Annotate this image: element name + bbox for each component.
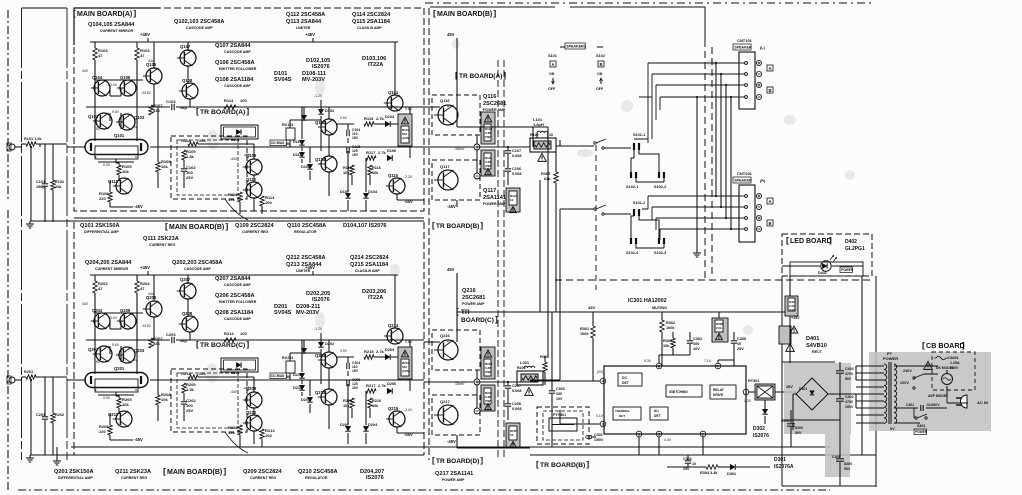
board border dashed [595, 145, 597, 290]
svg-text:IS2076: IS2076 [312, 64, 330, 70]
wire column B [153, 42, 155, 68]
svg-text:D103: D103 [385, 115, 394, 119]
svg-text:CURRENT REG: CURRENT REG [149, 243, 176, 247]
svg-text:100: 100 [265, 433, 272, 438]
svg-text:D301: D301 [727, 472, 736, 476]
wire R112 to Q109 [198, 143, 254, 145]
box DC DET [618, 373, 642, 386]
resistor R108 [156, 162, 160, 172]
svg-text:Q102,103 2SC458A: Q102,103 2SC458A [174, 19, 224, 25]
svg-text:R215: R215 [364, 349, 374, 354]
resistor R106 [108, 192, 112, 202]
wire limit chain [320, 116, 322, 147]
svg-text:Q101: Q101 [114, 133, 125, 138]
warning [786, 344, 795, 352]
terminal plus B [756, 82, 761, 87]
wire [424, 146, 474, 148]
svg-text:0.3V: 0.3V [103, 163, 111, 167]
svg-text:D401: D401 [799, 387, 807, 391]
svg-text:S401: S401 [917, 424, 925, 428]
svg-text:DC BIAS: DC BIAS [271, 374, 284, 378]
wire base row [95, 79, 143, 81]
svg-text:C304: C304 [683, 457, 692, 461]
svg-text:]: ] [246, 339, 249, 349]
wire [301, 107, 303, 134]
resistor R206 [108, 425, 112, 435]
svg-text:-45V: -45V [447, 439, 456, 444]
svg-text:-1.2V: -1.2V [314, 327, 323, 331]
wire transformer primary [894, 365, 912, 367]
wire column A [94, 60, 96, 141]
svg-text:0V: 0V [890, 427, 895, 431]
svg-text:25V: 25V [186, 408, 193, 413]
wire 45V rail [457, 311, 790, 313]
svg-text:47: 47 [140, 53, 145, 58]
transistor Q215 [389, 411, 405, 427]
wire [539, 180, 541, 312]
wire [289, 140, 291, 147]
wire [39, 144, 41, 147]
svg-text:Q113: Q113 [315, 157, 326, 162]
svg-text:100: 100 [693, 342, 699, 346]
svg-text:(1W): (1W) [789, 308, 795, 312]
resistor R114 [224, 105, 236, 109]
svg-text:R217: R217 [366, 383, 376, 388]
wire [790, 265, 820, 267]
svg-text:CNT101: CNT101 [737, 38, 753, 43]
svg-text:-45V: -45V [134, 437, 143, 442]
svg-text:AEP MODEL: AEP MODEL [928, 394, 948, 398]
svg-text:250V: 250V [950, 366, 959, 370]
wire column A [94, 293, 96, 374]
capacitor C202 [181, 401, 187, 403]
svg-text:2SC2681: 2SC2681 [483, 101, 506, 107]
svg-text:Q114: Q114 [388, 90, 399, 95]
relay RY301 [755, 384, 775, 400]
svg-text:Q116: Q116 [440, 98, 450, 103]
svg-text:(5W): (5W) [485, 370, 492, 374]
svg-text:1.25A: 1.25A [950, 361, 960, 365]
svg-text:LIMITER: LIMITER [296, 26, 311, 30]
svg-text:CLASS-B AMP: CLASS-B AMP [357, 26, 382, 30]
svg-text:Q117: Q117 [483, 188, 496, 194]
svg-text:-44V: -44V [230, 157, 238, 161]
capacitor C204 [346, 363, 348, 369]
svg-text:[: [ [432, 456, 435, 465]
svg-text:47: 47 [98, 53, 103, 58]
resistor R116 [368, 165, 372, 175]
svg-text:330: 330 [556, 392, 562, 396]
svg-text:16V: 16V [352, 386, 359, 390]
svg-text:S102-4: S102-4 [626, 251, 639, 255]
svg-text:532: 532 [402, 365, 407, 369]
svg-text:D204: D204 [368, 423, 378, 427]
svg-text:Q211 2SK23A: Q211 2SK23A [115, 469, 151, 475]
capacitor C401 [920, 405, 922, 411]
wire pin3 [560, 423, 600, 425]
svg-text:IS2076: IS2076 [312, 297, 330, 303]
transistor Q112 [321, 119, 337, 135]
resistor R301 [591, 326, 595, 338]
svg-text:C405: C405 [832, 455, 841, 459]
svg-text:Q115: Q115 [388, 173, 399, 178]
svg-text:(5W): (5W) [485, 164, 492, 168]
wire supply rail [90, 41, 398, 43]
resistor R118 [350, 165, 354, 175]
svg-text:S102-1: S102-1 [626, 185, 638, 189]
resistor R213 [260, 429, 264, 439]
svg-text:D210: D210 [293, 373, 302, 377]
switch S401 [915, 417, 917, 419]
wire [328, 135, 330, 156]
wire limit chain [320, 349, 322, 380]
svg-text:-2.2V: -2.2V [404, 408, 413, 412]
svg-text:10k: 10k [343, 404, 350, 408]
svg-text:CB BOARD: CB BOARD [926, 341, 965, 350]
pin 7 [715, 363, 721, 369]
transistor Q217 power [432, 395, 480, 435]
svg-text:Q214: Q214 [388, 323, 399, 328]
svg-text:0.068: 0.068 [512, 172, 522, 176]
svg-text:Q110: Q110 [246, 177, 257, 182]
resistor R110 [238, 192, 242, 202]
transistor Q110 [246, 182, 262, 198]
svg-text:5V: 5V [96, 127, 101, 131]
pin 2 [700, 431, 706, 437]
wire [365, 391, 367, 425]
svg-text:C301: C301 [594, 433, 603, 437]
svg-text:10k: 10k [663, 344, 670, 348]
svg-text:]: ] [829, 235, 832, 245]
page border left [7, 10, 9, 200]
svg-text:TR BOARD(A): TR BOARD(A) [459, 73, 502, 80]
svg-text:C403: C403 [845, 367, 854, 371]
svg-text:100: 100 [240, 331, 247, 336]
svg-text:+45V: +45V [791, 316, 800, 320]
svg-text:45V: 45V [786, 385, 793, 389]
capacitor C102 [181, 168, 187, 170]
wire [409, 340, 411, 357]
svg-text:CURRENT REG: CURRENT REG [250, 476, 277, 480]
wire [328, 368, 330, 389]
svg-text:EMITTER FOLLOWER: EMITTER FOLLOWER [219, 300, 257, 304]
svg-text:RV201: RV201 [282, 356, 294, 360]
board top border MAIN BOARD(B) [430, 7, 705, 40]
wire bottom rail [530, 454, 876, 456]
svg-text:240V: 240V [903, 369, 912, 373]
board border TR column [497, 60, 499, 460]
svg-text:]: ] [480, 221, 483, 230]
resistor R121 emphasized [481, 150, 495, 176]
svg-text:10: 10 [737, 342, 741, 346]
resistor R225 emphasized [506, 423, 520, 447]
capacitor C203 [171, 337, 173, 343]
svg-text:Q205: Q205 [120, 308, 131, 313]
page border top [425, 2, 875, 4]
resistor R212 [188, 375, 198, 379]
svg-text:220: 220 [99, 196, 106, 201]
svg-text:D102: D102 [325, 109, 334, 113]
svg-text:A: A [768, 199, 771, 204]
wire [559, 140, 561, 146]
svg-text:-45V: -45V [447, 204, 456, 209]
svg-text:C303: C303 [556, 387, 565, 391]
svg-text:C201: C201 [36, 413, 45, 417]
svg-text:TR: TR [461, 309, 470, 316]
transistor Q202 [96, 346, 112, 362]
svg-text:R304 3.3k: R304 3.3k [700, 471, 718, 475]
wire cnt horizontals R [648, 195, 739, 197]
svg-text:100k: 100k [666, 326, 675, 330]
svg-text:C103: C103 [166, 99, 176, 104]
transistor Q113 [321, 156, 337, 172]
svg-text:-44V: -44V [243, 153, 251, 157]
switch S102-1 [630, 172, 632, 178]
capacitor C207 [505, 385, 511, 387]
svg-text:R216: R216 [372, 399, 381, 403]
capacitor C301 [586, 435, 592, 437]
svg-text:Q204: Q204 [92, 308, 103, 313]
pin 5 [656, 431, 662, 437]
svg-text:IT22A: IT22A [368, 295, 383, 301]
svg-text:MV-203V: MV-203V [302, 77, 325, 83]
svg-text:C305: C305 [737, 337, 746, 341]
svg-text:OFF: OFF [596, 87, 604, 91]
wire pin4 link [593, 380, 600, 382]
wire supply rail [90, 274, 398, 276]
jack R channel input [9, 377, 15, 383]
wire jack ground A [30, 147, 32, 221]
svg-text:[: [ [432, 221, 435, 230]
svg-text:POWER AMP: POWER AMP [483, 202, 506, 206]
label DC BIAS [270, 140, 286, 146]
capacitor C201 [42, 416, 48, 418]
svg-text:1.3k: 1.3k [186, 387, 195, 392]
svg-text:Q106 2SC458A: Q106 2SC458A [215, 60, 255, 66]
svg-text:C206: C206 [512, 402, 521, 406]
svg-text:POWER: POWER [841, 268, 854, 272]
resistor R123 emphasized [506, 188, 520, 212]
svg-text:RY301: RY301 [748, 379, 759, 383]
wire [109, 346, 111, 354]
resistor R209 [182, 383, 186, 393]
transistor Q115 [389, 178, 405, 194]
resistor R304 [706, 465, 718, 469]
resistor R222 [517, 371, 543, 385]
wire ic top [658, 355, 660, 363]
terminal minus B R [756, 226, 761, 231]
svg-text:CURRENT REG: CURRENT REG [242, 230, 269, 234]
svg-text:(5W): (5W) [485, 135, 492, 139]
diode D201 box [221, 358, 258, 372]
svg-text:1/50V: 1/50V [594, 438, 604, 442]
diode D211 [299, 385, 304, 390]
svg-text:(L): (L) [760, 46, 766, 50]
svg-text:44V: 44V [148, 292, 155, 296]
wire signal rail [150, 146, 424, 148]
board power section border [781, 276, 783, 486]
svg-text:Q207 2SA844: Q207 2SA844 [215, 276, 251, 282]
transistor Q117 power [432, 160, 480, 200]
capacitor C105 [346, 147, 348, 153]
transistor Q212 [321, 352, 337, 368]
wire relay right [775, 391, 796, 393]
svg-text:16V: 16V [352, 369, 359, 373]
wire [109, 202, 111, 207]
wire [22, 7, 68, 9]
svg-text:S102: S102 [596, 54, 605, 58]
svg-text:DIFFERENTIAL AMP: DIFFERENTIAL AMP [58, 476, 93, 480]
svg-text:10: 10 [549, 133, 553, 137]
board border TR column2 [503, 60, 505, 460]
svg-text:Q111 2SK23A: Q111 2SK23A [143, 236, 179, 242]
resistor R115 [364, 122, 374, 126]
transistor Q105 [120, 80, 136, 96]
svg-text:IC301 HA12002: IC301 HA12002 [628, 298, 667, 304]
wire [109, 435, 111, 440]
wire mid rail [176, 339, 424, 341]
wire [456, 435, 458, 448]
svg-text:ON: ON [549, 72, 555, 76]
svg-text:SV04S: SV04S [274, 77, 292, 83]
svg-text:CASCODE AMP: CASCODE AMP [184, 267, 211, 271]
svg-text:[: [ [165, 221, 168, 231]
terminal minus A [756, 71, 761, 76]
wire R channel to switch [530, 209, 560, 380]
diode D103 [385, 121, 390, 127]
svg-text:CNT201: CNT201 [737, 171, 753, 176]
wire led down [782, 265, 790, 267]
wire [456, 330, 458, 342]
svg-text:R303: R303 [663, 339, 672, 343]
wire column C [187, 299, 189, 316]
wire cnt bundle [715, 63, 717, 196]
wire [86, 106, 170, 108]
svg-text:2SA1141: 2SA1141 [483, 195, 506, 201]
diode D111 [299, 152, 304, 157]
capacitor C205 [346, 380, 348, 386]
capacitor C206 [505, 403, 511, 405]
wire [347, 124, 349, 130]
svg-text:]: ] [503, 71, 506, 80]
svg-text:C101: C101 [36, 180, 45, 184]
scan smudges [207, 130, 219, 150]
resistor R119 emphasized [398, 114, 412, 146]
svg-text:2.7k: 2.7k [378, 150, 387, 155]
capacitor C304 [685, 460, 691, 462]
svg-text:534: 534 [153, 108, 160, 113]
svg-text:DET: DET [622, 381, 630, 385]
svg-text:532: 532 [402, 132, 407, 136]
svg-text:R214: R214 [224, 331, 234, 336]
svg-text:SV04S: SV04S [274, 310, 292, 316]
ground [696, 250, 698, 253]
svg-text:43.4V: 43.4V [108, 83, 118, 87]
svg-text:IT22A: IT22A [368, 62, 383, 68]
svg-text:[: [ [786, 235, 789, 245]
svg-text:0.3V: 0.3V [103, 396, 111, 400]
svg-text:R114: R114 [224, 98, 234, 103]
label DC BIAS [270, 373, 286, 379]
svg-text:C8401: C8401 [948, 356, 959, 360]
svg-text:0.5V: 0.5V [340, 349, 348, 353]
svg-text:]: ] [495, 314, 498, 324]
wire base bus [110, 95, 121, 97]
svg-text:45V: 45V [588, 305, 595, 310]
ground bottom [56, 458, 58, 461]
svg-text:47: 47 [140, 286, 145, 291]
board MAIN BOARD(B) border bottom [74, 454, 424, 456]
svg-text:Q208: Q208 [182, 311, 193, 316]
svg-text:Q105: Q105 [120, 75, 131, 80]
svg-text:39k: 39k [228, 197, 235, 202]
svg-text:MAIN BOARD(B): MAIN BOARD(B) [437, 11, 492, 18]
svg-text:IS2076A: IS2076A [774, 464, 794, 470]
wire [476, 150, 478, 173]
svg-text:Q101 2SK150A: Q101 2SK150A [80, 223, 120, 229]
pin 3 [600, 421, 606, 427]
svg-text:8200: 8200 [844, 462, 852, 466]
gray region left power [784, 363, 851, 434]
svg-text:5.3V: 5.3V [644, 359, 652, 363]
resistor R109 [182, 150, 186, 160]
pot RV201 [286, 361, 295, 373]
resistor R? emphasized2 [779, 326, 791, 344]
wire bottom rail2 [457, 447, 530, 449]
svg-text:100k: 100k [580, 332, 589, 336]
svg-text:Q108 2SA1184: Q108 2SA1184 [215, 77, 254, 83]
resistor R303 [671, 338, 675, 348]
resistor R215 [364, 355, 374, 359]
svg-text:Q208 2SA1184: Q208 2SA1184 [215, 310, 254, 316]
svg-text:15mV: 15mV [455, 382, 465, 386]
capacitor C103 [171, 104, 173, 110]
wire switch to cnt R [642, 196, 660, 240]
resistor R302 [660, 320, 664, 332]
svg-text:R222: R222 [517, 366, 526, 370]
wire [456, 273, 458, 330]
gray region CB board [869, 352, 991, 431]
svg-text:TR BOARD(A): TR BOARD(A) [200, 109, 245, 116]
board MAIN BOARD(A) border [74, 8, 424, 211]
diode D208 [301, 348, 306, 353]
svg-text:DRIVE: DRIVE [713, 393, 724, 397]
svg-text:[: [ [73, 8, 76, 18]
wire [109, 113, 111, 121]
svg-text:25V: 25V [186, 175, 193, 180]
svg-text:[: [ [922, 340, 925, 350]
diode D107 [345, 193, 350, 198]
svg-text:100: 100 [240, 98, 247, 103]
svg-text:47: 47 [98, 286, 103, 291]
svg-text:9.6V: 9.6V [112, 110, 120, 114]
svg-text:TR BOARD(C): TR BOARD(C) [200, 342, 245, 349]
svg-text:B: B [599, 62, 602, 67]
resistor R103 [93, 48, 97, 60]
svg-text:R112: R112 [181, 138, 191, 143]
capacitor C402 [836, 398, 844, 400]
svg-text:R102: R102 [55, 180, 64, 184]
jack L channel input [9, 144, 15, 150]
wire [476, 385, 478, 408]
transistor Q114 [387, 95, 403, 111]
svg-text:C401: C401 [906, 403, 914, 407]
led D402 [790, 262, 863, 276]
transistor Q106 [146, 68, 162, 84]
svg-text:0.068: 0.068 [512, 407, 522, 411]
fuse C8401 box [932, 352, 975, 390]
svg-text:[: [ [196, 339, 199, 349]
